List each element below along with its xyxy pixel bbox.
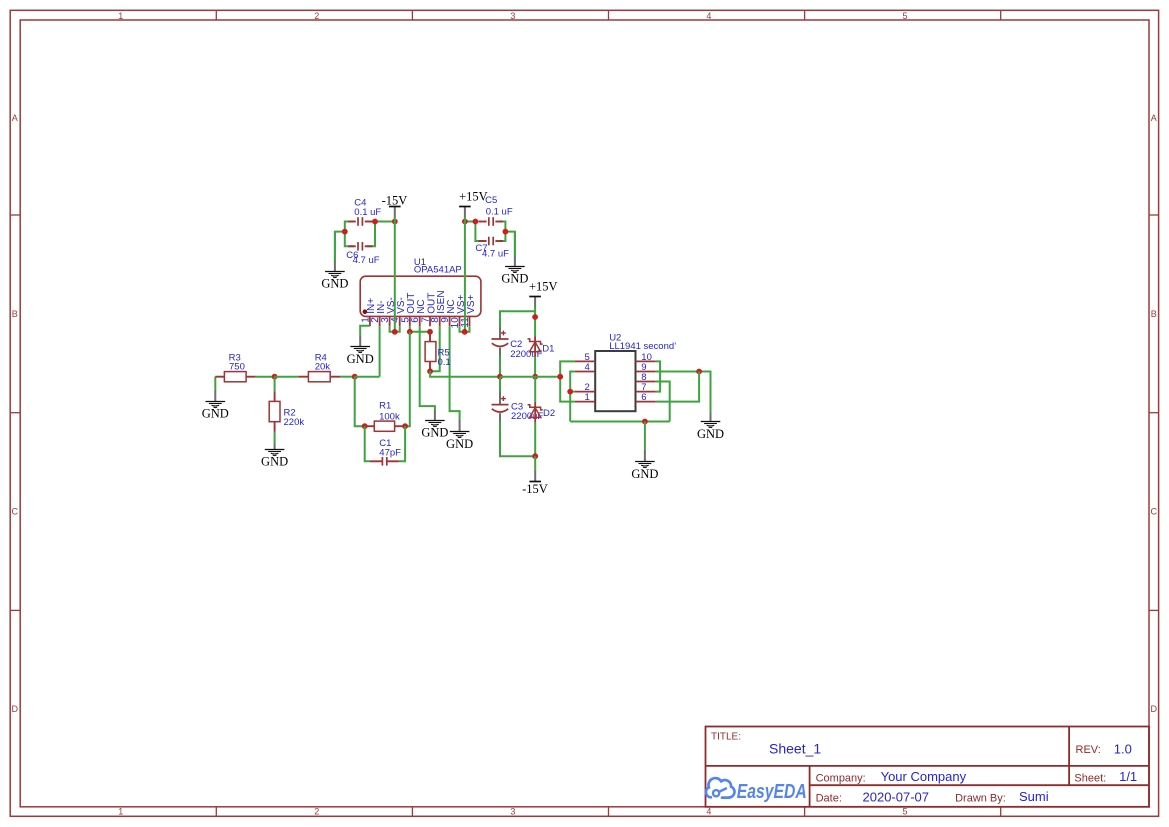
svg-text:B: B (1151, 309, 1157, 319)
border column numbers bottom (118, 807, 907, 817)
power +15V top (459, 207, 471, 218)
ground GND C5-C7 (501, 232, 528, 286)
junction OUT pin5 (407, 329, 413, 335)
wire feedback node down to R1 left (355, 377, 365, 427)
wire U2 pin9 to ground corner (656, 372, 711, 414)
wire C5 left down to C7 left (475, 222, 483, 242)
ground GND U2 rail (631, 451, 658, 481)
wire U1 pin1 to ground (360, 326, 370, 337)
ground GND U1 pin1 (347, 336, 374, 366)
wire R3 left to ground (214, 377, 216, 392)
svg-text:Sheet:: Sheet: (1074, 773, 1106, 785)
border column ticks top (216, 10, 1000, 20)
junction -15V feed (392, 219, 398, 225)
svg-text:-15V: -15V (522, 482, 548, 496)
svg-text:D: D (1151, 704, 1158, 714)
svg-text:2200uF: 2200uF (510, 349, 542, 360)
svg-text:3: 3 (510, 807, 515, 817)
wire C1 right up to R1 right (399, 426, 405, 461)
wire R3 to R2 node (256, 376, 275, 378)
op-amp U1 pin numbers (360, 317, 471, 329)
svg-text:Sumi: Sumi (1019, 789, 1049, 804)
junction U2 input node (557, 374, 563, 380)
capacitor C2 (polarized) (492, 327, 509, 356)
op-amp U1 pin1 marker (363, 309, 368, 314)
svg-text:TITLE:: TITLE: (711, 731, 741, 742)
border row letters right (1151, 113, 1158, 714)
wire C5 right to C7 right (500, 222, 506, 242)
svg-text:GND: GND (697, 427, 724, 441)
op-amp U1 pin names (366, 290, 477, 313)
wire U2 pin6 up to pin9 node (656, 372, 699, 402)
svg-text:A: A (1151, 113, 1157, 123)
svg-text:3: 3 (510, 11, 515, 21)
svg-text:GND: GND (261, 455, 288, 469)
svg-text:LL1941 second’: LL1941 second’ (609, 341, 676, 352)
wire C4 row to -15V node (375, 221, 395, 223)
ground GND U1 pin9 (446, 420, 473, 451)
capacitor C1 (370, 457, 399, 466)
svg-text:47pF: 47pF (379, 448, 401, 459)
svg-text:+15V: +15V (529, 280, 558, 294)
svg-text:4: 4 (706, 11, 711, 21)
svg-text:Your Company: Your Company (881, 769, 967, 784)
wire R1 left down to C1 (365, 426, 370, 461)
wire output bus to U2 (500, 376, 560, 378)
svg-text:1: 1 (118, 11, 123, 21)
svg-text:Company:: Company: (816, 772, 866, 784)
svg-text:EasyEDA: EasyEDA (737, 780, 807, 803)
junction OUT pin7 (427, 329, 433, 335)
svg-text:0.1 uF: 0.1 uF (486, 206, 513, 217)
svg-text:5: 5 (902, 11, 907, 21)
junction C4-C6 left (342, 229, 348, 235)
junction U2 pin2 tap (567, 389, 573, 395)
svg-text:100k: 100k (379, 411, 400, 422)
svg-text:5: 5 (902, 807, 907, 817)
resistor R5 (425, 332, 436, 372)
capacitor C3 (polarized) (499, 377, 501, 392)
ground GND C4-C6 (321, 232, 348, 291)
wire rail to ground (644, 422, 646, 452)
resistor R2 (269, 391, 280, 432)
svg-text:R1: R1 (379, 401, 391, 412)
op-amp U1 body (360, 276, 481, 316)
svg-text:+15V: +15V (459, 189, 488, 203)
svg-text:GND: GND (501, 272, 528, 286)
power +15V mid (529, 297, 541, 308)
wire U2 pin4 down to rail (570, 372, 575, 422)
wire C3 bottom to -15V node (500, 421, 535, 456)
svg-text:Drawn By:: Drawn By: (955, 793, 1006, 805)
svg-text:REV:: REV: (1076, 744, 1101, 756)
power -15V bottom (529, 471, 541, 481)
wire +15V node to C5 left (465, 221, 476, 223)
wire U1 pin5 to pin7 OUT bridge (410, 331, 430, 333)
wire U2 bottom rail (570, 421, 670, 423)
border row letters left (12, 113, 19, 714)
ground GND U1 pin6 (421, 410, 448, 439)
svg-text:-15V: -15V (382, 194, 408, 208)
power -15V top (389, 207, 401, 218)
wire U2 pin5 pin1 left link (560, 361, 575, 401)
wire R2 bottom to ground (274, 432, 276, 445)
svg-text:GND: GND (421, 426, 448, 440)
wire +15V to C2 top (500, 311, 535, 328)
zener diode D1 (528, 337, 543, 357)
svg-text:Date:: Date: (816, 793, 842, 805)
wire U1 pin6 to ground (420, 326, 435, 411)
junction D1 bottom bus (532, 374, 538, 380)
IC U2 right pin numbers (641, 352, 652, 403)
wire C4 left to C6 left (345, 222, 354, 247)
wire -15V node down (534, 456, 536, 471)
svg-text:4: 4 (706, 807, 711, 817)
IC U2 right pin stubs (636, 361, 656, 401)
svg-text:GND: GND (446, 437, 473, 451)
svg-text:VS+: VS+ (466, 294, 477, 313)
junction +15V D1 node (532, 314, 538, 320)
wire U1 pin5 stub down (409, 326, 411, 332)
junction VS- node (392, 329, 398, 335)
wire +15V rail vertical (464, 222, 466, 332)
svg-text:750: 750 (229, 361, 245, 372)
wire U2 pin10 to pin7 (656, 361, 660, 391)
wire feedback node to U1 pin2 corner (355, 376, 380, 378)
svg-text:D: D (12, 704, 19, 714)
wire U2 pin8 down to rail (656, 382, 670, 422)
junction feedback node (352, 374, 358, 380)
wire R2 top (274, 377, 276, 392)
IC U2 left pin numbers (585, 352, 590, 403)
ground GND R2 (261, 444, 288, 469)
junction U2 pin9-pin6 node (696, 369, 702, 375)
svg-text:Sheet_1: Sheet_1 (769, 741, 821, 757)
junction C2 bottom bus (497, 374, 503, 380)
wire GND tap from C4-C6 left (335, 232, 345, 262)
svg-text:D2: D2 (543, 408, 555, 419)
svg-text:4: 4 (585, 362, 590, 373)
wire U2 pin2 tap (570, 391, 575, 393)
svg-text:220k: 220k (284, 417, 305, 428)
junction C5-C7 right (503, 229, 509, 235)
wire R4 to feedback node (340, 376, 355, 378)
border column numbers top (118, 11, 907, 21)
svg-text:1: 1 (118, 807, 123, 817)
svg-text:1.0: 1.0 (1114, 741, 1132, 756)
svg-text:1/1: 1/1 (1119, 769, 1137, 784)
wire GND tap from C5-C7 right (505, 232, 515, 258)
svg-text:GND: GND (321, 276, 348, 290)
svg-text:0.1 uF: 0.1 uF (354, 207, 381, 218)
border row ticks left (10, 215, 20, 610)
EasyEDA logo (706, 778, 807, 803)
junction R1 right (402, 423, 408, 429)
junction R1 left (362, 423, 368, 429)
svg-text:B: B (12, 309, 18, 319)
svg-text:2: 2 (314, 11, 319, 21)
junction R2 node (272, 374, 278, 380)
junction R5 bottom (427, 368, 433, 374)
wire U1 pin2 down to input net (379, 326, 381, 377)
svg-text:A: A (12, 113, 18, 123)
junction C5 left (473, 219, 479, 225)
svg-text:4.7 uF: 4.7 uF (482, 248, 509, 259)
svg-text:6: 6 (641, 392, 646, 403)
wire C4 right to C6 right (367, 222, 375, 247)
capacitor C5 (479, 217, 504, 226)
svg-text:C: C (12, 507, 19, 517)
resistor R3 (215, 372, 256, 382)
svg-text:C: C (1151, 507, 1158, 517)
IC U2 left pin stubs (575, 361, 595, 401)
junction +15V feed (462, 219, 468, 225)
svg-text:2020-07-07: 2020-07-07 (863, 789, 930, 804)
junction VS+ node (462, 329, 468, 335)
wire U1 pin8 to R5 bottom (430, 326, 440, 371)
IC U2 body (595, 351, 635, 411)
wire R5 bottom to output bus (430, 371, 500, 376)
svg-text:1: 1 (585, 392, 590, 403)
ground GND U2 pin9 (697, 413, 724, 442)
capacitor C7 (479, 237, 504, 246)
junction U2 rail GND (642, 419, 648, 425)
svg-text:2: 2 (314, 807, 319, 817)
ground GND R3 (202, 391, 229, 421)
svg-text:4.7 uF: 4.7 uF (353, 255, 380, 266)
border column ticks bottom (216, 807, 1000, 817)
wire U1 pins 10-11 VS+ bridge (460, 326, 470, 332)
wire R2 node to R4 (275, 376, 299, 378)
svg-text:D1: D1 (542, 343, 554, 354)
svg-text:GND: GND (631, 467, 658, 481)
resistor R4 (299, 372, 340, 382)
wire U1 pin5 down to R1 right (405, 332, 410, 426)
border row ticks right (1149, 215, 1159, 610)
svg-text:GND: GND (202, 407, 229, 421)
wire U1 pins 3-4 VS- bridge (390, 326, 400, 332)
zener diode D2 (534, 377, 536, 403)
svg-text:GND: GND (347, 352, 374, 366)
title block frame (706, 727, 1150, 807)
svg-text:OPA541AP: OPA541AP (414, 265, 462, 276)
capacitor C4 (348, 217, 372, 226)
svg-text:0.1: 0.1 (438, 357, 451, 368)
op-amp U1 pin stubs (370, 316, 470, 326)
capacitor C6 (348, 242, 372, 251)
junction C4 right (372, 219, 378, 225)
svg-text:20k: 20k (315, 361, 331, 372)
wire U1 pin9 to ground (450, 326, 460, 420)
junction -15V node (532, 453, 538, 459)
wire -15V rail vertical (394, 222, 396, 332)
resistor R1 (365, 421, 405, 431)
